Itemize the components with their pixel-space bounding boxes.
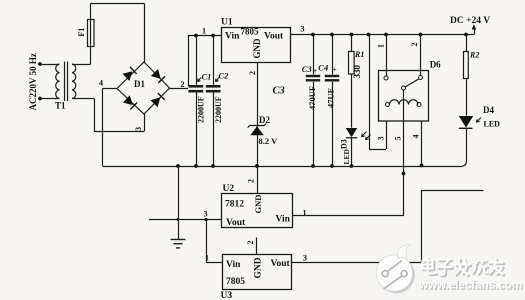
svg-text:LED: LED: [342, 148, 351, 164]
svg-text:D6: D6: [430, 60, 441, 70]
svg-text:AC220V 50 Hz: AC220V 50 Hz: [28, 53, 38, 110]
svg-text:T1: T1: [55, 101, 66, 111]
svg-text:7812: 7812: [225, 200, 244, 210]
svg-text:GND: GND: [253, 195, 263, 214]
svg-text:8.2 V: 8.2 V: [259, 136, 279, 146]
svg-text:1: 1: [303, 209, 307, 218]
svg-text:Vin: Vin: [276, 215, 291, 225]
svg-text:5: 5: [394, 137, 403, 141]
svg-text:LED: LED: [484, 120, 501, 129]
svg-text:2: 2: [247, 179, 256, 183]
svg-text:3: 3: [301, 25, 305, 34]
svg-text:1: 1: [377, 44, 386, 48]
svg-text:Vout: Vout: [264, 32, 284, 42]
svg-text:3: 3: [134, 127, 143, 131]
svg-text:2200UF: 2200UF: [214, 96, 223, 123]
svg-text:C4: C4: [318, 63, 328, 73]
svg-text:C1: C1: [202, 72, 212, 82]
svg-text:Vout: Vout: [271, 259, 291, 269]
svg-text:U1: U1: [221, 18, 233, 28]
svg-text:2: 2: [248, 71, 257, 75]
svg-text:DC +24 V: DC +24 V: [450, 16, 490, 26]
svg-text:2200UF: 2200UF: [197, 96, 206, 123]
svg-text:Vin: Vin: [226, 260, 241, 270]
svg-text:+: +: [313, 66, 317, 75]
svg-text:1: 1: [202, 27, 206, 36]
svg-text:F1: F1: [77, 28, 86, 37]
svg-text:C3: C3: [273, 86, 285, 97]
svg-text:2: 2: [181, 80, 185, 89]
svg-text:7805: 7805: [226, 277, 245, 287]
svg-text:3: 3: [377, 137, 386, 141]
svg-text:D1: D1: [134, 79, 145, 89]
svg-text:GND: GND: [254, 257, 264, 278]
svg-text:7805: 7805: [241, 27, 260, 37]
svg-text:D4: D4: [483, 105, 494, 115]
svg-text:1: 1: [205, 254, 209, 263]
svg-text:D2: D2: [259, 115, 270, 125]
svg-text:R1: R1: [354, 50, 364, 59]
svg-text:www.elecfans.com: www.elecfans.com: [418, 279, 522, 292]
svg-text:47UF: 47UF: [326, 88, 336, 108]
svg-text:U3: U3: [221, 291, 233, 300]
svg-text:R2: R2: [469, 51, 479, 60]
svg-text:4: 4: [412, 135, 421, 139]
svg-text:2: 2: [410, 43, 419, 47]
svg-text:330: 330: [352, 65, 362, 79]
svg-text:C2: C2: [219, 71, 230, 81]
svg-text:Vout: Vout: [226, 218, 246, 228]
svg-text:3: 3: [303, 254, 307, 263]
svg-text:2: 2: [246, 241, 255, 245]
svg-text:3: 3: [204, 210, 208, 219]
svg-text:Vin: Vin: [225, 32, 240, 42]
svg-text:C3: C3: [302, 64, 313, 74]
svg-text:U2: U2: [223, 184, 235, 194]
svg-text:4: 4: [99, 79, 103, 88]
svg-text:+: +: [333, 65, 337, 74]
svg-text:470UF: 470UF: [307, 86, 317, 110]
svg-text:D3: D3: [340, 139, 349, 149]
svg-text:GND: GND: [252, 38, 262, 59]
